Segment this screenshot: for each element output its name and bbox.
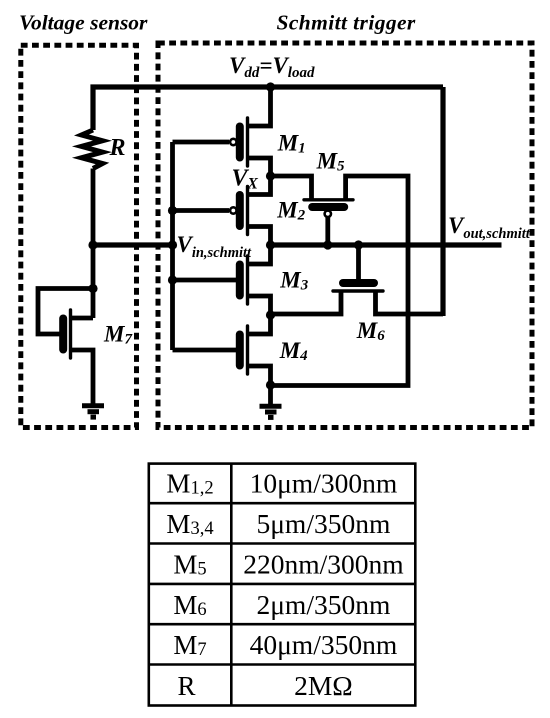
transistor M5 label (316, 149, 345, 175)
svg-text:Voltage sensor: Voltage sensor (19, 11, 148, 35)
junction dot bus/Vin (168, 240, 177, 249)
svg-text:M5: M5 (173, 550, 206, 580)
svg-text:M7: M7 (103, 322, 132, 348)
ground symbol left (82, 406, 104, 417)
svg-text:Vout,schmitt: Vout,schmitt (448, 213, 531, 242)
schmitt trigger dashed box (158, 43, 532, 428)
svg-text:M4: M4 (279, 338, 308, 364)
transistor M7 label (103, 322, 132, 348)
transistor M6 (NMOS horizontal) (271, 245, 444, 314)
transistor M6 label (356, 318, 385, 344)
wire Vdd rail (93, 87, 443, 130)
svg-text:40μm/350nm: 40μm/350nm (250, 629, 398, 660)
svg-text:M1,2: M1,2 (166, 469, 213, 499)
svg-text:2μm/350nm: 2μm/350nm (256, 589, 390, 620)
svg-text:220nm/300nm: 220nm/300nm (243, 549, 403, 580)
transistor M3 (NMOS) (240, 245, 271, 315)
wire VX to M5 (271, 176, 312, 200)
title Schmitt trigger (277, 11, 416, 35)
transistor M3 label (279, 267, 308, 293)
svg-text:M5: M5 (316, 149, 345, 175)
svg-text:VX: VX (232, 165, 259, 192)
junction dot M6 gate on Vout (354, 240, 363, 249)
transistor M1 (PMOS) (230, 87, 270, 176)
wire resistor bottom lead (91, 169, 96, 246)
table row M3,4 (166, 508, 390, 539)
wire M2 gate (173, 208, 230, 213)
junction dot bus M2 gate (168, 206, 177, 215)
table frame (149, 464, 416, 706)
svg-text:M7: M7 (173, 630, 206, 660)
wire Vdd right drop (440, 87, 445, 316)
resistor R (82, 130, 103, 169)
voltage sensor dashed box (21, 45, 137, 427)
wire M4 gate (173, 348, 237, 353)
svg-text:M1: M1 (277, 131, 306, 157)
svg-text:Schmitt trigger: Schmitt trigger (277, 11, 416, 35)
node VX label (232, 165, 259, 192)
svg-text:M3: M3 (279, 267, 308, 293)
transistor M4 (NMOS) (240, 315, 271, 385)
transistor M5 (PMOS horizontal) (271, 176, 409, 386)
junction dot output node (266, 240, 275, 249)
title Voltage sensor (19, 11, 148, 35)
table row M5 (173, 549, 403, 580)
node Vdd=Vload label (229, 53, 315, 81)
svg-text:Vdd=Vload: Vdd=Vload (229, 53, 315, 81)
table row M7 (173, 629, 397, 660)
svg-text:10μm/300nm: 10μm/300nm (250, 468, 398, 499)
junction dot M5 gate on Vout (323, 240, 332, 249)
node Vin,schmitt label (177, 232, 253, 261)
svg-text:Vin,schmitt: Vin,schmitt (177, 232, 253, 261)
transistor M2 (PMOS) (230, 176, 270, 245)
junction dot M4 source/ground (266, 380, 275, 389)
transistor M1 label (277, 131, 306, 157)
junction dot resistor/Vin (88, 240, 97, 249)
transistor M2 label (276, 197, 305, 223)
svg-text:M6: M6 (356, 318, 385, 344)
svg-text:5μm/350nm: 5μm/350nm (256, 508, 390, 539)
table row R (177, 670, 352, 701)
table row M1,2 (166, 468, 397, 499)
transistor M4 label (279, 338, 308, 364)
node Vout,schmitt label (448, 213, 531, 242)
svg-text:2MΩ: 2MΩ (294, 670, 353, 701)
junction dot on Vdd rail at M1 source (266, 82, 275, 91)
wire ground stem right (268, 385, 273, 406)
wire M7 gate loop (38, 289, 93, 335)
junction dot bus M3 gate (168, 275, 177, 284)
table row M6 (173, 589, 390, 620)
transistor M7 (NMOS diode-connected) (63, 310, 93, 404)
junction dot M3/M4 node (266, 310, 275, 319)
svg-text:M2: M2 (276, 197, 305, 223)
wire Vout line (271, 242, 502, 247)
svg-text:R: R (177, 671, 195, 701)
wire M3 gate (173, 278, 237, 283)
resistor R label (109, 135, 126, 161)
wire M1 gate (173, 140, 230, 145)
wire Vin line (93, 242, 177, 247)
wire gate bus (170, 142, 175, 350)
ground symbol right (260, 406, 282, 417)
svg-text:R: R (109, 135, 126, 161)
junction dot M7 gate tap (88, 284, 97, 293)
svg-text:M6: M6 (173, 590, 206, 620)
junction dot VX (266, 171, 275, 180)
wire M7 drain drop (91, 245, 96, 318)
svg-text:M3,4: M3,4 (166, 509, 213, 539)
